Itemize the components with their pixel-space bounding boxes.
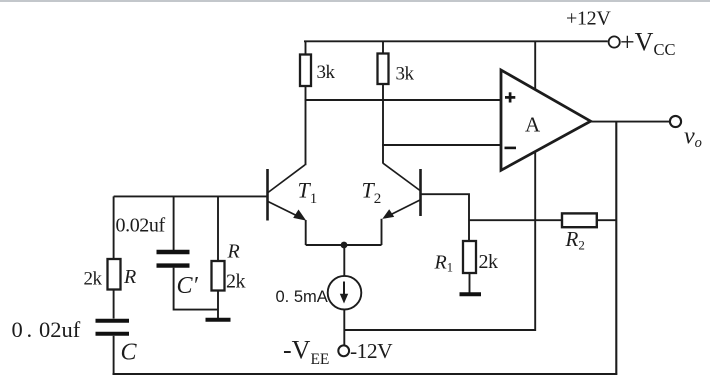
wire base rail to R (right 2k) xyxy=(217,196,219,261)
wire T1 emitter vertical xyxy=(305,220,307,245)
svg-text:0. 5mA: 0. 5mA xyxy=(276,288,328,306)
wire T2 collector vertical xyxy=(382,84,384,164)
terminal -VEE xyxy=(338,345,349,356)
resistor R (right 2k) xyxy=(212,261,225,291)
wire T1 collector vertical xyxy=(305,86,307,165)
resistor R2 xyxy=(562,213,597,227)
transistor Q T1 xyxy=(268,165,307,221)
svg-text:R: R xyxy=(123,266,136,288)
wire R3k-2 top stub xyxy=(382,41,384,53)
wire base rail to C' xyxy=(173,196,175,250)
wire op-amp output xyxy=(591,121,671,123)
wire R1 bottom xyxy=(469,273,471,293)
wire C to bottom rail xyxy=(113,336,115,375)
svg-text:3k: 3k xyxy=(396,64,415,85)
resistor 3k (right) xyxy=(378,54,389,85)
terminal +VCC xyxy=(609,36,620,47)
wire +12V top rail xyxy=(304,40,608,42)
wire op-amp inverting input xyxy=(382,144,501,146)
resistor R (left 2k) xyxy=(108,259,121,290)
svg-text:C′: C′ xyxy=(177,273,199,299)
wire T2 base to R1 node xyxy=(421,194,470,241)
wire feedback vertical from output xyxy=(615,122,617,375)
svg-text:3k: 3k xyxy=(317,62,336,83)
wire R3k-1 top stub xyxy=(305,41,307,54)
svg-text:2k: 2k xyxy=(479,251,499,273)
junction emitter node xyxy=(341,242,348,249)
ground (left) xyxy=(206,318,231,322)
capacitor C' xyxy=(157,252,190,266)
wire C' to ground rail xyxy=(174,268,218,310)
wire current source to -VEE terminal xyxy=(343,309,345,345)
svg-text:+12V: +12V xyxy=(566,8,611,30)
wire R2 left xyxy=(469,219,562,221)
svg-text:0.02uf: 0.02uf xyxy=(116,215,166,237)
svg-text:C: C xyxy=(121,340,138,366)
wire emitter node to current source xyxy=(343,245,345,277)
wire op-amp V- supply pin xyxy=(345,152,536,331)
current source I1 0.5mA xyxy=(328,276,362,310)
wire R to ground xyxy=(217,291,219,319)
capacitor C 0.02uf xyxy=(96,321,130,334)
transistor Q T2 xyxy=(382,163,420,219)
svg-text:A: A xyxy=(525,113,541,137)
wire R to C xyxy=(113,290,115,319)
ground (R1) xyxy=(460,292,482,296)
wire emitter rail xyxy=(306,244,382,246)
wire op-amp noninverting input xyxy=(305,99,501,101)
resistor 3k (left) xyxy=(300,55,311,87)
svg-text:R: R xyxy=(227,241,240,263)
wire op-amp V+ supply pin xyxy=(534,41,536,90)
terminal vo xyxy=(670,116,681,127)
resistor R1 xyxy=(463,241,476,273)
svg-text:2k: 2k xyxy=(226,271,246,293)
wire base rail to R (left) xyxy=(113,196,115,259)
wire feedback bottom xyxy=(113,373,618,375)
svg-text:-12V: -12V xyxy=(350,339,393,363)
wire T1 base rail xyxy=(114,195,268,197)
op-amp U1 A xyxy=(501,70,591,170)
wire R2 right xyxy=(597,219,617,221)
svg-text:2k: 2k xyxy=(84,269,103,290)
wire T2 emitter vertical xyxy=(381,219,383,245)
svg-text:0.02uf: 0.02uf xyxy=(12,317,81,342)
